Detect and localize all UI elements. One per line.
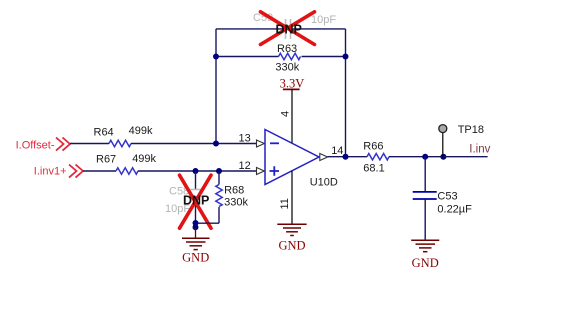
ground GND (under C53) <box>411 239 439 241</box>
resistor R67 <box>116 168 138 174</box>
svg-text:330k: 330k <box>224 197 248 209</box>
pin 13 input arrow <box>257 140 265 147</box>
svg-text:4: 4 <box>279 111 291 117</box>
capacitor C58 (DNP, grayed) branch <box>195 171 197 190</box>
svg-text:68.1: 68.1 <box>363 163 384 175</box>
resistor R68 <box>218 171 220 185</box>
wire: net stub I.inv <box>443 156 487 158</box>
svg-text:14: 14 <box>331 145 343 157</box>
capacitor C59 (DNP, grayed) plates <box>286 19 291 39</box>
ground GND (left, under C58) <box>195 228 197 238</box>
junction dot C58 top <box>193 168 199 174</box>
svg-text:DNP: DNP <box>183 194 209 208</box>
pin 4 wire <box>291 89 293 143</box>
DNP red X over C59 <box>261 12 315 45</box>
junction dots C58 bottom <box>193 220 199 226</box>
wire: left vertical of feedback loop <box>215 29 217 144</box>
junction dot right feedback <box>343 54 349 60</box>
resistor R66 <box>367 154 389 160</box>
wire: output row <box>328 156 367 158</box>
wire pin12 row <box>83 170 116 172</box>
wire pin13 row <box>70 143 109 145</box>
junction dot pin13/feedback <box>213 141 219 147</box>
svg-text:13: 13 <box>239 133 251 145</box>
op-amp U10D <box>265 130 319 185</box>
resistor R64 <box>109 140 131 146</box>
svg-text:GND: GND <box>278 238 305 252</box>
svg-text:I.inv1+: I.inv1+ <box>34 166 67 178</box>
svg-text:C53: C53 <box>437 191 457 203</box>
svg-text:I.inv: I.inv <box>469 144 490 156</box>
svg-text:GND: GND <box>182 251 209 265</box>
svg-text:DNP: DNP <box>276 23 302 37</box>
svg-text:U10D: U10D <box>310 177 338 189</box>
svg-text:R67: R67 <box>96 154 116 166</box>
junction dot left feedback <box>213 54 219 60</box>
svg-text:I.Offset-: I.Offset- <box>16 140 55 152</box>
wire R68 bottom to C58 bottom <box>196 222 220 224</box>
svg-text:TP18: TP18 <box>458 124 484 136</box>
svg-text:0.22µF: 0.22µF <box>437 204 472 216</box>
svg-text:499k: 499k <box>129 125 153 137</box>
resistor R63 <box>216 56 279 58</box>
svg-text:R63: R63 <box>277 43 297 55</box>
pin 14 output arrow <box>320 154 328 161</box>
svg-text:R64: R64 <box>94 127 114 139</box>
junction dot C53 top <box>422 154 428 160</box>
svg-text:499k: 499k <box>132 153 156 165</box>
junction dot TP18 <box>440 154 446 160</box>
capacitor C53 <box>424 157 426 192</box>
svg-text:R66: R66 <box>363 141 383 153</box>
plus input mark <box>270 166 280 176</box>
pin 11 wire <box>291 171 293 224</box>
test point TP18 <box>442 133 444 157</box>
wire: top feedback branch left of C59 <box>216 28 286 30</box>
svg-text:12: 12 <box>239 160 251 172</box>
svg-text:10pF: 10pF <box>311 14 336 26</box>
svg-text:3.3V: 3.3V <box>280 77 305 91</box>
svg-text:330k: 330k <box>275 62 299 74</box>
svg-text:GND: GND <box>412 256 439 270</box>
svg-text:R68: R68 <box>224 184 244 196</box>
wire: top feedback branch right of C59 <box>291 28 346 30</box>
DNP red X over C58 <box>180 175 212 228</box>
junction dot output/feedback <box>343 154 349 160</box>
pin 12 input arrow <box>257 168 265 175</box>
minus input mark <box>270 142 279 144</box>
wire: right vertical of feedback loop <box>345 29 347 157</box>
ground GND (under op-amp pin 11) <box>277 223 306 225</box>
junction dot R68 top <box>216 168 222 174</box>
svg-text:11: 11 <box>279 198 291 209</box>
